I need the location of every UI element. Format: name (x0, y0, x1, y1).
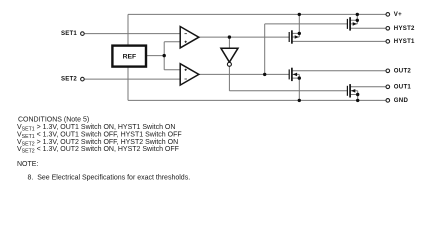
wire HYST2 output line (350, 27, 386, 29)
inverter U3 (221, 48, 238, 66)
wire OUT2 source to GND (292, 74, 300, 100)
terminal SET1 (61, 30, 84, 37)
svg-text:V+: V+ (394, 11, 402, 18)
wire bottom comparator output to OUT2 gate (199, 73, 290, 75)
wire SET2 to comparator (85, 78, 181, 80)
junction HYST2 drain corner (356, 19, 359, 22)
svg-text:OUT1: OUT1 (394, 83, 412, 90)
wire inverter output to OUT1 gate (229, 90, 347, 92)
svg-text:SET2: SET2 (61, 75, 77, 82)
svg-text:SET1: SET1 (61, 30, 77, 37)
junction OUT1 source corner (356, 93, 359, 96)
svg-text:OUT2: OUT2 (394, 67, 412, 74)
terminal OUT2 (386, 67, 411, 74)
junction HYST2 drain on V+ rail (356, 13, 359, 16)
terminal OUT1 (386, 83, 411, 90)
svg-text:HYST1: HYST1 (394, 38, 415, 45)
wire GND rail (128, 99, 386, 101)
comparator U2 (bottom) (180, 64, 199, 85)
voltage reference REF (112, 46, 146, 67)
wire inverter input vertical (228, 37, 230, 48)
junction OUT1 source on GND rail (356, 99, 359, 102)
junction OUT2 source corner (298, 76, 301, 79)
wire OUT1 output line (350, 86, 386, 88)
wire inverter output vertical (228, 66, 230, 90)
wire REF to top comparator + input (164, 41, 180, 43)
svg-text:8. See Electrical Specificati: 8. See Electrical Specifications for exa… (28, 175, 191, 182)
wire REF top vertical (127, 14, 129, 45)
wire SET1 to comparator (85, 33, 181, 35)
wire REF junction vertical (163, 42, 165, 70)
terminal V+ (386, 11, 402, 18)
wire OUT2 output line (292, 70, 386, 72)
junction HYST2 gate tap (263, 73, 266, 76)
wire REF bottom vertical (127, 67, 129, 101)
wire REF to bottom comparator + input (164, 69, 180, 71)
wire HYST2 drain to V+ (350, 14, 357, 24)
wire OUT1 source to GND (350, 91, 358, 101)
transistor Q3 OUT2 switch (289, 68, 297, 81)
junction REF output node (163, 54, 166, 57)
transistor Q1 HYST2 switch (347, 17, 357, 30)
wire REF output (146, 55, 164, 57)
svg-text:NOTE:: NOTE: (17, 161, 38, 168)
wire top comparator output to HYST1 gate (199, 36, 290, 38)
wire HYST1 drain to V+ (292, 14, 300, 37)
terminal GND (386, 97, 408, 104)
conditions text block (17, 116, 190, 181)
wire HYST2 gate vertical (264, 24, 266, 75)
wire HYST2 gate horizontal (265, 23, 348, 25)
wire HYST1 output line (292, 40, 386, 42)
svg-text:GND: GND (394, 97, 409, 104)
wire V+ rail (128, 13, 386, 15)
terminal HYST1 (386, 38, 415, 45)
comparator U1 (top) (180, 27, 199, 48)
junction OUT2 source on GND rail (298, 99, 301, 102)
transistor Q2 HYST1 switch (289, 30, 299, 43)
junction HYST1 drain corner (298, 32, 301, 35)
terminal HYST2 (386, 25, 415, 32)
junction inverter input tap (228, 35, 231, 38)
junction HYST1 drain on V+ rail (298, 13, 301, 16)
transistor Q4 OUT1 switch (347, 84, 355, 97)
svg-text:HYST2: HYST2 (394, 25, 415, 32)
svg-text:CONDITIONS (Note 5): CONDITIONS (Note 5) (18, 116, 89, 123)
svg-text:REF: REF (123, 54, 137, 61)
terminal SET2 (61, 75, 84, 82)
